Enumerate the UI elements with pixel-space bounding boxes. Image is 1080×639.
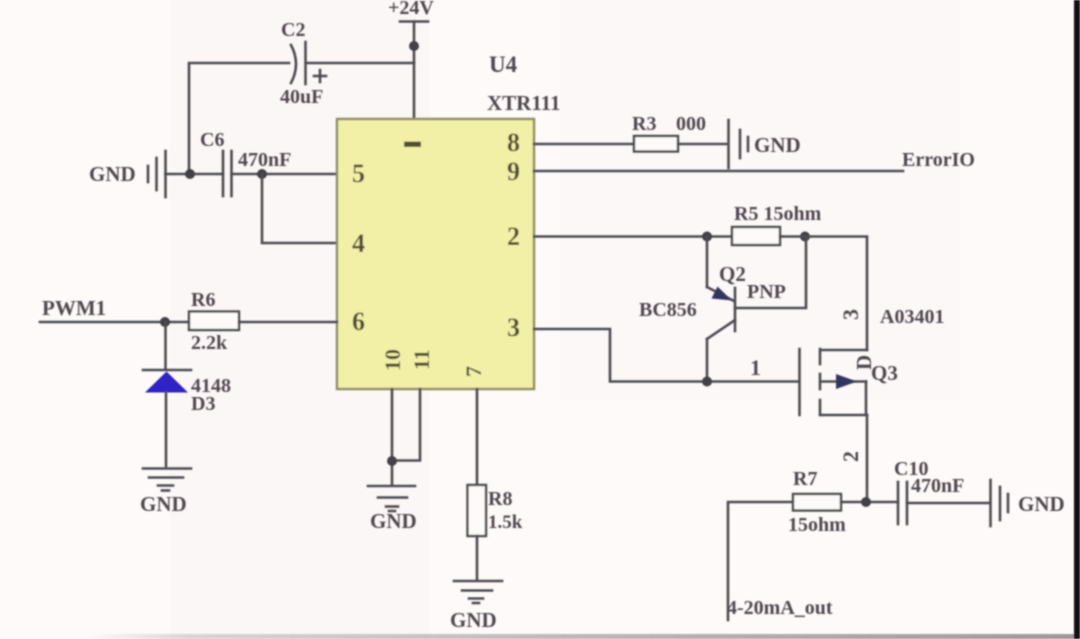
wire to pin 4 (262, 174, 337, 243)
IC U4 XTR111 (337, 52, 561, 389)
junction node Q2 collector (702, 377, 712, 387)
wire pin 8 to R3 (534, 143, 634, 146)
wire R8 to ground (476, 536, 479, 579)
resistor R7 15ohm (788, 468, 846, 536)
ground GND (pins 10/11) (368, 486, 417, 533)
power +24V (388, 0, 434, 119)
wire pin 11 down and over (392, 389, 420, 461)
ground GND (under D3) (140, 469, 191, 517)
wire PWM1 to R6 (40, 321, 189, 324)
junction node output (861, 497, 871, 507)
wire C10 to ground (907, 502, 990, 505)
capacitor C10 470nF (894, 458, 964, 524)
mosfet Q3 A03401 (800, 306, 945, 462)
junction node Q2 emitter (702, 232, 712, 242)
junction node Q2 base branch (800, 232, 810, 242)
capacitor C2 (polarized 40uF) (280, 19, 326, 108)
junction node pins 10/11 (387, 456, 397, 466)
border right (1074, 0, 1080, 639)
wire Q3 source down (866, 415, 869, 502)
wire GND to C6 (166, 173, 224, 176)
junction node at C2 branch (185, 169, 195, 179)
transistor Q2 BC856 PNP (639, 237, 806, 383)
wire pin 7 down (476, 389, 479, 485)
wire R6 to pin 6 (239, 321, 337, 324)
ground GND (at C10) (991, 480, 1065, 526)
wire R7 to junction (841, 501, 898, 504)
capacitor C6 470nF (200, 129, 291, 196)
wire pin 9 ErrorIO net (534, 170, 903, 173)
wire C6 to pin 5 (232, 173, 338, 176)
junction dot on +24V net (409, 41, 419, 51)
border bottom (90, 634, 1080, 639)
ground GND (at R3) (729, 120, 801, 168)
wire pin 3 to Q3 gate (534, 329, 798, 382)
resistor R3 000 (632, 113, 706, 152)
wire output node (728, 502, 793, 620)
diode D3 4148 (143, 322, 231, 466)
pin 1 (rotated) (404, 142, 421, 148)
wire pin 2 to R5 (534, 235, 732, 238)
junction node diode branch (160, 317, 170, 327)
ground GND (under R8) (450, 581, 502, 632)
junction node pin4 branch (257, 169, 267, 179)
wire pin 10 down (391, 389, 394, 484)
wire C2 top loop (189, 63, 414, 174)
wire R5 to Q3 drain (780, 237, 867, 351)
ground GND (left, at C6) (89, 151, 166, 197)
resistor R6 2.2k (189, 289, 239, 354)
resistor R5 15ohm (732, 203, 822, 245)
resistor R8 1.5k (468, 485, 523, 536)
wire R3 to ground (678, 143, 728, 146)
